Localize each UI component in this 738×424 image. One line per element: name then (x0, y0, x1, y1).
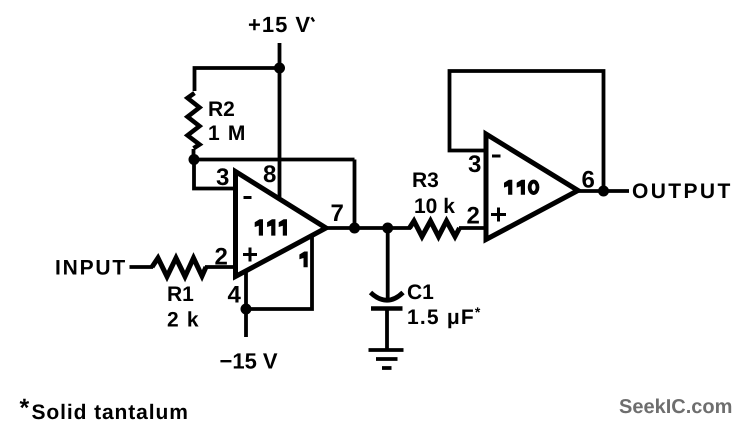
svg-text:OUTPUT: OUTPUT (632, 180, 733, 203)
svg-text:7: 7 (331, 200, 344, 227)
node C1 tap junction (382, 223, 393, 234)
node output junction (598, 186, 609, 197)
svg-text:3: 3 (468, 151, 481, 178)
wire U2 output (578, 189, 629, 193)
svg-text:+15 V: +15 V (248, 12, 311, 37)
non-inverting input marker U2 (491, 208, 506, 222)
wire R1 to pin 2 (205, 265, 236, 269)
wire pin 4 to -15V (244, 271, 248, 338)
node V+ junction (274, 63, 285, 74)
svg-text:SeekIC.com: SeekIC.com (619, 396, 732, 418)
ground (369, 350, 404, 368)
svg-text:INPUT: INPUT (55, 257, 127, 280)
power label prime mark (312, 18, 315, 22)
svg-text:Solid tantalum: Solid tantalum (32, 401, 189, 424)
wire U2 feedback loop (450, 71, 604, 191)
svg-text:R3: R3 (412, 169, 439, 192)
inverting input marker U1 (244, 196, 252, 199)
svg-text:8: 8 (263, 161, 276, 188)
resistor R1 (152, 258, 206, 277)
op-amp U1 triangle (236, 172, 327, 277)
wire R2 bottom to feedback node (192, 149, 196, 160)
node U1 output feedback junction (349, 223, 360, 234)
op-amp U2 triangle (486, 134, 578, 240)
wire C1 top lead (386, 228, 390, 302)
capacitor C1 curved plate (371, 293, 404, 301)
wire pin 1 loop (246, 236, 312, 309)
non-inverting input marker U1 (243, 248, 257, 262)
svg-text:C1: C1 (407, 281, 434, 304)
wire U1 output (326, 226, 411, 230)
svg-text:−15 V: −15 V (220, 349, 278, 374)
wire R3 to U2 pin 2 (459, 226, 486, 230)
wire pin 8 from V+ (278, 68, 282, 197)
svg-text:2 k: 2 k (167, 309, 200, 332)
resistor R3 (410, 221, 460, 237)
wire input lead (130, 265, 154, 269)
wire +15V lead (278, 43, 282, 68)
pin label 1 (U1) (299, 252, 307, 268)
wire feedback top run (194, 158, 355, 162)
svg-text:4: 4 (228, 282, 242, 309)
svg-text:1 M: 1 M (208, 122, 247, 145)
svg-text:3: 3 (216, 164, 229, 191)
node V- junction (241, 304, 252, 315)
capacitor C1 straight plate (371, 306, 403, 311)
wire pin 3 stub (194, 160, 234, 189)
svg-text:10 k: 10 k (414, 195, 455, 218)
svg-text:R1: R1 (167, 283, 194, 306)
inverting input marker U2 (492, 155, 501, 158)
svg-text:*: * (20, 394, 30, 422)
resistor R2 (188, 93, 200, 148)
device label 111 (255, 219, 287, 235)
svg-text:R2: R2 (208, 98, 235, 121)
svg-text:2: 2 (467, 203, 480, 230)
wire C1 bottom lead (385, 308, 389, 349)
node feedback junction (189, 154, 200, 165)
wire V+ junction to R2 top (195, 68, 280, 91)
wire feedback right leg (353, 160, 357, 229)
svg-text:2: 2 (215, 244, 228, 271)
device label 110 (504, 180, 525, 195)
svg-text:1.5 μF*: 1.5 μF* (407, 304, 482, 329)
